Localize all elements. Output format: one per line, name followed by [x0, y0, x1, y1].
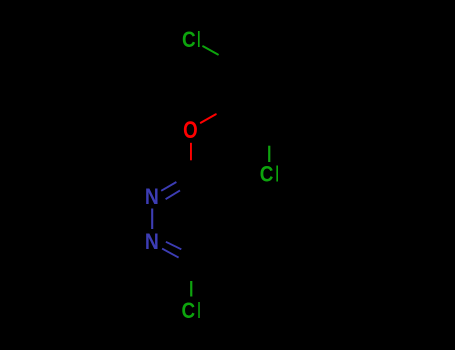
double bond N1=C6 inner line (blue half) — [166, 242, 181, 250]
bond N1-N2 (blue, vertical) — [151, 209, 153, 230]
svg-text:C: C — [260, 162, 274, 187]
svg-text:N: N — [145, 185, 159, 209]
double bond N2=C3 outer line (blue half) — [161, 182, 176, 191]
oxygen label O (ether) — [183, 117, 198, 144]
chlorine label Cl (right, on phenyl C6) — [260, 162, 279, 187]
svg-text:l: l — [276, 162, 279, 187]
svg-text:l: l — [197, 27, 200, 52]
bond O-C1 phenyl (red half, diagonal) — [201, 114, 216, 123]
nitrogen label N2 (top) — [145, 185, 159, 209]
svg-text:C: C — [182, 299, 196, 324]
svg-text:O: O — [183, 117, 198, 144]
nitrogen label N1 (bottom) — [145, 230, 159, 254]
svg-text:N: N — [145, 230, 159, 254]
svg-text:C: C — [182, 28, 196, 53]
bond C6-Cl bottom (green half, vertical) — [190, 281, 192, 297]
svg-text:l: l — [198, 298, 201, 323]
double bond N2=C3 inner line (blue half) — [166, 190, 180, 199]
bond C6-Cl right (green half, vertical) — [268, 146, 270, 162]
bond O-C3 pyridazine (red half, vertical) — [190, 143, 192, 161]
bond C2-Cl top (green half) — [203, 46, 218, 54]
double bond N1=C6 outer line (blue half) — [162, 249, 179, 258]
chlorine label Cl (top-left, on phenyl C2) — [182, 27, 201, 52]
chlorine label Cl (bottom, on pyridazine C6) — [182, 298, 201, 324]
